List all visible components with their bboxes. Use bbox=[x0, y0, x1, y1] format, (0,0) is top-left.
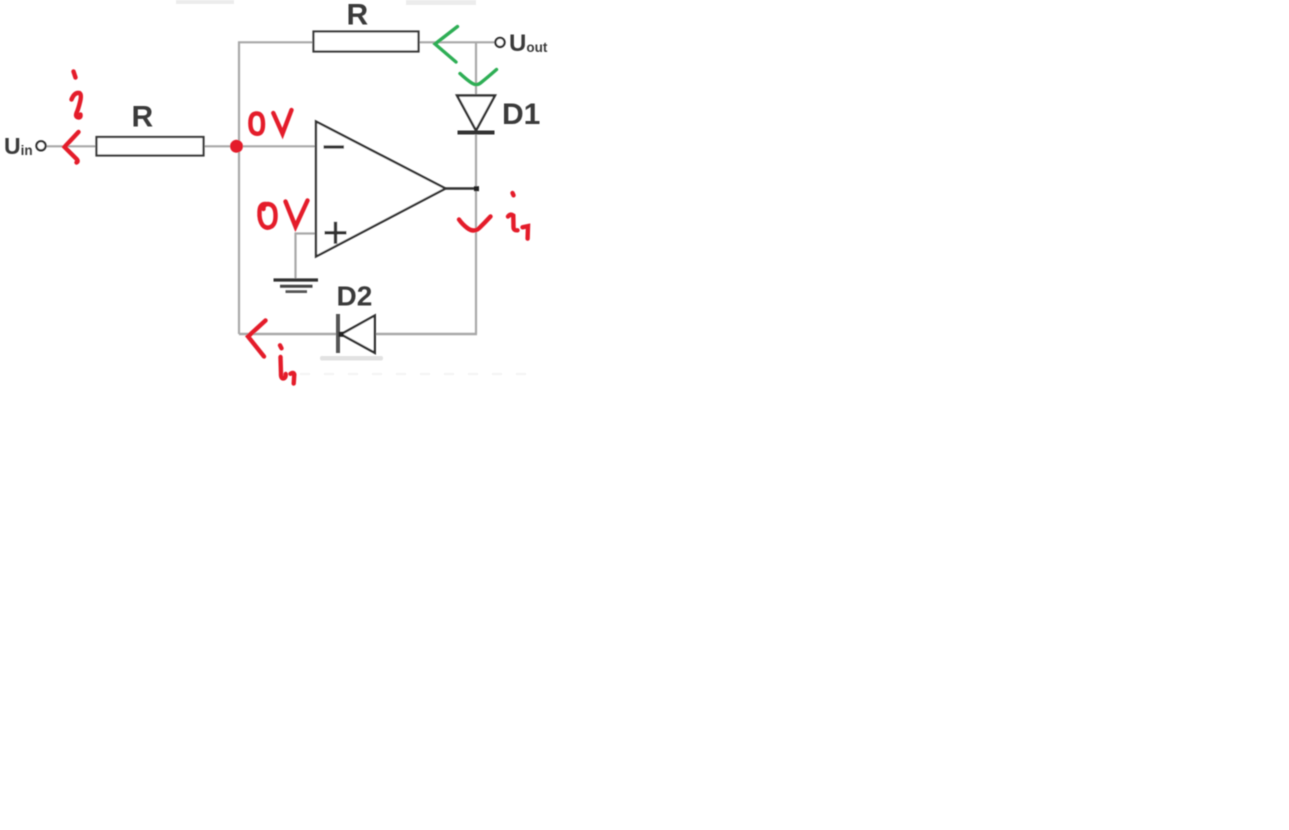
diode D2 bbox=[338, 314, 375, 353]
red label i at input (body) bbox=[72, 93, 81, 118]
wire: diode D1 cathode down to bottom wire, through output junction bbox=[475, 133, 477, 334]
svg-text:R: R bbox=[347, 0, 369, 32]
resistor R2 (feedback) bbox=[314, 32, 419, 52]
red label i1 bottom (body) bbox=[281, 357, 286, 378]
svg-text:D2: D2 bbox=[337, 281, 373, 312]
wire: top left horizontal to feedback resistor R bbox=[238, 41, 315, 43]
red label 0V at non-inverting input bbox=[259, 201, 307, 228]
wire: bottom horizontal, diode D2 anode to right vertical bbox=[375, 333, 477, 335]
red label i at input (dot) bbox=[74, 72, 76, 78]
junction dot at output node bbox=[474, 186, 479, 191]
wire: feedback resistor R to Uout terminal bbox=[418, 41, 496, 43]
green arrow left (at Uout wire) bbox=[435, 27, 458, 63]
svg-text:R: R bbox=[132, 101, 154, 134]
red label i1 bottom (subscript 1) bbox=[291, 373, 295, 384]
resistor R1 (input) bbox=[97, 137, 204, 156]
red label i1 at output (subscript 1) bbox=[523, 226, 529, 239]
red squiggle i1 arrow at op-amp output bbox=[459, 217, 491, 231]
faint bottom smudge bbox=[320, 356, 383, 361]
svg-text:D1: D1 bbox=[502, 98, 540, 131]
faint top smudge left bbox=[176, 0, 234, 4]
faint top smudge right bbox=[406, 0, 476, 5]
wire: bottom horizontal, left part to diode D2 cathode bbox=[239, 333, 338, 335]
wire: resistor R (left) to op-amp inverting input, through node A bbox=[204, 145, 316, 147]
node A red dot bbox=[230, 140, 243, 153]
faint dotted artifact line bbox=[300, 373, 540, 375]
diode D1 bbox=[457, 96, 495, 133]
wire: input terminal to resistor R (left) bbox=[46, 145, 97, 147]
wire: op-amp output stub (dark) bbox=[445, 187, 477, 189]
wire: branch down from top wire to diode D1 bbox=[475, 42, 477, 96]
wire: op-amp non-inverting input to ground stem bbox=[295, 232, 317, 234]
red current arrow i at input (arrowhead) bbox=[65, 132, 79, 163]
red label i1 at output (body) bbox=[508, 215, 518, 231]
wire: left vertical from top feedback wire down to bottom wire bbox=[238, 42, 240, 335]
red label i1 bottom (dot) bbox=[280, 345, 282, 348]
op-amp inverting input minus sign bbox=[324, 145, 345, 148]
red current arrow i1 at bottom left (arrowhead) bbox=[248, 321, 266, 357]
ground bbox=[274, 280, 319, 292]
red label i1 at output (dot) bbox=[513, 193, 514, 195]
wire: ground stem vertical bbox=[294, 233, 296, 279]
output terminal circle bbox=[495, 38, 504, 47]
input terminal circle bbox=[36, 141, 45, 150]
red label 0V at inverting input bbox=[250, 110, 291, 134]
op-amp non-inverting input plus sign bbox=[325, 222, 347, 244]
op-amp U1 body bbox=[316, 122, 446, 257]
green arrowhead V above diode D1 bbox=[460, 70, 497, 85]
